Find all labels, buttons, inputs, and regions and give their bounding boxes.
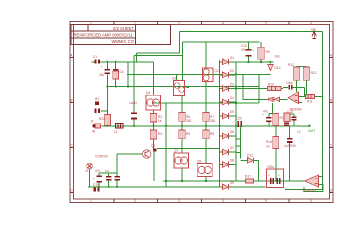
svg-text:R10: R10 [268, 83, 274, 87]
wire x243 to inv input [242, 74, 244, 100]
capacitor C18 [106, 176, 112, 181]
wire R12 top lead [297, 65, 307, 67]
svg-text:R11: R11 [307, 100, 313, 104]
svg-text:D13: D13 [247, 154, 253, 158]
svg-text:D10: D10 [275, 66, 281, 70]
capacitor C5 [129, 101, 137, 119]
pair box M4 [146, 95, 161, 110]
svg-text:2: 2 [134, 199, 136, 203]
wire C19b leads [116, 173, 118, 176]
junction dots [133, 125, 135, 127]
wire R9 top feed [260, 42, 262, 47]
wire staircase V1b [136, 53, 138, 62]
svg-text:R13: R13 [311, 71, 317, 75]
resistor R20 [99, 115, 110, 126]
diode D12 [275, 97, 280, 101]
supply symbol V+ [311, 28, 317, 39]
wire vertical x128 [127, 62, 129, 87]
diode D1 [220, 56, 249, 65]
svg-text:C20: C20 [236, 117, 242, 121]
wire staircase H1 [137, 52, 180, 54]
wire rail2 vertical [182, 42, 184, 81]
svg-text:B: B [70, 99, 72, 103]
svg-text:NJM4565: NJM4565 [303, 189, 317, 193]
transistor Q2 [203, 69, 209, 75]
svg-text:1u/50: 1u/50 [129, 101, 137, 105]
wire x153.5 bus to R4 [153, 126, 155, 130]
wire inv input line [243, 98, 288, 100]
svg-text:30u: 30u [99, 73, 105, 77]
wire cap C5 leads [133, 119, 135, 126]
transistor Q1a [174, 83, 180, 89]
wire cluster top h [269, 113, 276, 115]
cap box B1 [267, 169, 284, 188]
frame tick right 4 [330, 192, 334, 194]
connector J2 [85, 163, 92, 173]
wire horizontal y111.2 [101, 110, 108, 112]
svg-text:Q2: Q2 [215, 69, 219, 73]
frame tick bottom 1 [113, 199, 115, 203]
wire feedback cap drop [304, 87, 306, 96]
svg-text:R20: R20 [99, 117, 105, 121]
svg-text:+: + [101, 65, 103, 69]
wire x182 R5 to bus [181, 121, 183, 126]
capacitor C4 [113, 69, 124, 79]
wire C10 top lead [248, 42, 250, 49]
wire x153.5 box to R3 [153, 110, 155, 114]
wire Q5 base line [117, 153, 143, 155]
svg-text:4u7/63V: 4u7/63V [284, 144, 297, 148]
svg-text:R9: R9 [266, 50, 270, 54]
title block outline [71, 25, 171, 45]
wire R12 bottom lead [296, 80, 298, 92]
wire x154.2 down to rail [153, 150, 155, 181]
resistor R9 [258, 47, 270, 59]
svg-text:4: 4 [222, 199, 224, 203]
capacitor C3 polarized [99, 65, 110, 77]
wire U1 output [299, 96, 306, 98]
svg-text:+56: +56 [311, 28, 317, 32]
resistor R3 [150, 114, 162, 123]
wire x182 bus to R6 [181, 126, 183, 130]
wire bottom caps top h [99, 172, 117, 174]
capacitor C13 [287, 110, 296, 121]
wire cap C3 bottom lead and drop [106, 74, 108, 115]
wire stub y139 [236, 138, 241, 140]
svg-text:D1: D1 [230, 56, 234, 60]
wire cap C4 top lead [115, 62, 117, 69]
wire U2 feedback loop [304, 184, 323, 191]
svg-text:47u: 47u [95, 169, 101, 173]
wire D10 leads [269, 62, 271, 64]
frame tick right 3 [330, 147, 334, 149]
frame tick top 5 [288, 22, 290, 25]
title block row divider 1 [71, 30, 136, 32]
diode D9 [223, 181, 235, 190]
svg-text:D7: D7 [230, 146, 234, 150]
transistor Q1b [179, 87, 185, 93]
svg-text:R8: R8 [210, 132, 214, 136]
wire stub y152.5 [236, 152, 241, 154]
wire chain rail extension [235, 126, 237, 153]
wire C13 leads [293, 114, 295, 116]
frame tick top 1 [113, 22, 115, 25]
capacitor C10 polarized [241, 44, 255, 57]
svg-text:Q7: Q7 [174, 149, 178, 153]
diode D7 [220, 146, 237, 155]
resistor R12 [288, 63, 300, 80]
wire x206 box M3 to rail [205, 177, 207, 182]
wire vertical x153.5 upper [153, 62, 155, 95]
wire x206 mirror to R7 [205, 82, 207, 113]
op-amp U1 [288, 92, 302, 112]
diode D6 [220, 130, 237, 139]
wire staircase V1 [179, 32, 181, 54]
resistor R10 horizontal [268, 83, 282, 91]
title block row divider 2 [71, 37, 136, 39]
wire R20 bottom lead [106, 124, 108, 127]
wire vertical x166 long [165, 103, 167, 187]
op-amp U2 pointing left [303, 175, 319, 193]
svg-text:C13: C13 [287, 110, 293, 114]
diode D4 [220, 96, 237, 105]
svg-text:1u: 1u [105, 169, 109, 173]
capacitor C17 polarized [93, 176, 102, 183]
transistor Q4b [152, 99, 159, 106]
wire LTP collector stub left [176, 74, 178, 80]
svg-text:D5: D5 [230, 110, 234, 114]
wire cluster2 top h [287, 113, 294, 115]
wire rail y74.3 [127, 73, 271, 75]
svg-text:C1: C1 [93, 55, 97, 59]
svg-text:L2: L2 [297, 130, 301, 134]
capacitor C19 polarized on rail [93, 183, 100, 191]
diode D0 block [95, 102, 99, 106]
wire x240.5 down [240, 127, 242, 158]
svg-text:R6: R6 [186, 132, 190, 136]
wire x182 LTP to R5 [181, 96, 183, 113]
wire V+ top rail [180, 31, 323, 33]
wire feedback line y148.5 [157, 148, 220, 150]
svg-text:330: 330 [186, 119, 192, 123]
svg-text:5: 5 [265, 199, 267, 203]
wire right loop vertical [322, 32, 324, 190]
svg-text:Q1: Q1 [172, 77, 176, 81]
wire C12 leads [268, 114, 270, 118]
pair box M2 [174, 153, 189, 168]
svg-text:+: + [93, 177, 95, 181]
resistor R17 horizontal [245, 175, 254, 184]
svg-text:1k: 1k [158, 119, 162, 123]
wire jack2 down [89, 169, 91, 187]
diode D8 [220, 159, 237, 168]
wire R9 to y62 [260, 59, 262, 62]
wire diode chain left rail [219, 60, 221, 187]
diode D5 [220, 110, 237, 119]
wire LTP feed [185, 86, 189, 88]
resistor R16 zobel [266, 137, 279, 149]
wire x182 R6 to box M2 [181, 139, 183, 153]
svg-text:3: 3 [178, 199, 180, 203]
wire rail y181 [163, 180, 305, 182]
svg-text:R17: R17 [245, 175, 251, 179]
wire x206 R8 to box M3 [205, 139, 207, 164]
diode D11 [268, 97, 273, 101]
wire rail y62 [236, 61, 273, 63]
wire main bus y125.8 [102, 125, 311, 127]
wire staircase V2b [133, 56, 135, 113]
capacitor C12 polarized [262, 113, 272, 122]
capacitor Cf feedback [286, 81, 293, 90]
wire staircase H2 [134, 55, 183, 57]
svg-text:+: + [253, 49, 255, 53]
wire rail y103 [152, 102, 259, 104]
svg-text:+: + [262, 113, 264, 117]
capacitor C20 on bus [236, 117, 242, 128]
resistor R13 [303, 67, 316, 80]
wire zobel R16 leads [275, 126, 277, 137]
capacitor C16 polarized series [277, 174, 281, 185]
frame tick bottom 2 [157, 199, 159, 203]
svg-text:WMMIC CO: WMMIC CO [111, 39, 134, 44]
frame tick right 1 [330, 57, 334, 59]
svg-text:L1: L1 [114, 130, 118, 134]
capacitor C15 polarized series [268, 174, 274, 185]
svg-text:D4: D4 [230, 96, 234, 100]
wire rail2 top [183, 41, 260, 43]
svg-text:C4: C4 [120, 70, 124, 74]
wire x182 box M2 to rail [181, 168, 183, 181]
frame tick top 2 [157, 22, 159, 25]
svg-text:10k: 10k [275, 55, 281, 59]
svg-text:3: 3 [178, 21, 180, 25]
transistor Q9 [198, 166, 205, 173]
wire x272.5 down [272, 103, 274, 114]
svg-text:Q9: Q9 [197, 160, 201, 164]
svg-text:Q5: Q5 [151, 144, 155, 148]
transistor Q4a [147, 99, 154, 106]
svg-text:J1: J1 [90, 120, 94, 124]
inductor L2 coil [297, 130, 301, 134]
wire noninv input line [236, 88, 283, 90]
resistor R6 [179, 130, 191, 139]
wire x206 R7 to bus [205, 121, 207, 126]
wire node line y61.8 [100, 61, 154, 63]
frame tick left 3 [70, 147, 74, 149]
title block vertical divider [135, 25, 137, 45]
resistor R15 [284, 113, 290, 126]
wire bottom loop horizontal [285, 189, 323, 191]
connector J1 input [92, 124, 101, 134]
frame tick bottom 4 [244, 199, 246, 203]
svg-text:R4: R4 [158, 132, 162, 136]
transistor Q7 [175, 157, 182, 164]
wire stub y146 [236, 145, 241, 147]
frame tick top 4 [244, 22, 246, 25]
frame tick left 4 [70, 192, 74, 194]
resistor R4 [150, 130, 162, 139]
wire diode chain right rail [235, 62, 237, 181]
frame tick right 2 [330, 102, 334, 104]
wire zobel C14 leads [289, 126, 291, 138]
wire U2 input stub top [319, 176, 323, 178]
wire C17 leads [98, 173, 100, 176]
pair box LTP M0 [174, 81, 185, 96]
transistor Q3 [203, 75, 209, 81]
wire cap C3 top lead [106, 62, 108, 69]
diode D2 [220, 69, 237, 78]
label OUT arrow [309, 124, 312, 127]
wire diode D13 line [241, 159, 248, 161]
wire rail y87 [107, 86, 259, 88]
svg-text:47u: 47u [241, 48, 247, 52]
wire C10 bottom lead [248, 57, 250, 63]
wire C18 leads [108, 173, 110, 176]
frame tick left 1 [70, 57, 74, 59]
wire x206 bus to R8 [205, 126, 207, 130]
frame tick left 2 [70, 102, 74, 104]
transistor Q5 [143, 150, 151, 158]
svg-text:4: 4 [222, 21, 224, 25]
svg-text:330: 330 [210, 119, 216, 123]
svg-text:Q4: Q4 [146, 91, 150, 95]
svg-text:OUT: OUT [308, 129, 315, 133]
resistor R5 [179, 113, 191, 122]
frame inner border [74, 25, 330, 200]
capacitor C2 polarized horizontal [95, 109, 101, 113]
transistor Q10 [204, 166, 211, 173]
resistor R7 [203, 113, 215, 122]
transistor Q8 [180, 157, 187, 164]
title block cell divider row1 [87, 25, 89, 32]
wire x259 to noninv [258, 74, 260, 103]
resistor R14 [273, 114, 286, 126]
diode D10 vertical [268, 65, 281, 71]
svg-text:5: 5 [265, 21, 267, 25]
pair box M3 [197, 164, 212, 177]
svg-text:10: 10 [266, 145, 270, 149]
svg-text:47u: 47u [263, 110, 269, 114]
svg-text:R12: R12 [288, 63, 294, 67]
diode D13 [247, 154, 254, 164]
capacitor C1 horizontal top-left [92, 55, 101, 64]
svg-text:D2: D2 [230, 69, 234, 73]
svg-text:D8: D8 [230, 159, 234, 163]
wire x153.5 R4 to Q5 [153, 139, 155, 150]
svg-text:+: + [278, 174, 280, 178]
wire x206 mirror top feed [205, 42, 207, 68]
frame tick bottom 5 [288, 199, 290, 203]
svg-text:2/2 SHEET: 2/2 SHEET [113, 26, 134, 31]
diode D3 [220, 83, 237, 92]
svg-text:B: B [330, 99, 332, 103]
svg-text:D3: D3 [230, 83, 234, 87]
resistor R11 horizontal [306, 95, 315, 104]
svg-text:D6: D6 [230, 130, 234, 134]
svg-text:6: 6 [310, 21, 312, 25]
capacitor C19b [114, 176, 120, 181]
svg-text:6: 6 [310, 199, 312, 203]
capacitor C14 zobel [284, 138, 297, 148]
svg-text:100u: 100u [267, 165, 274, 169]
svg-text:J2: J2 [85, 169, 89, 173]
resistor R8 [203, 130, 215, 139]
wire U1 lower input stub [299, 102, 303, 104]
wire x258.5 down [258, 160, 260, 181]
pair box mirror M1 [203, 68, 214, 82]
svg-text:COM=0V: COM=0V [95, 155, 109, 159]
wire cap C4 bottom lead [115, 79, 117, 87]
svg-text:D9: D9 [230, 181, 234, 185]
svg-text:+: + [268, 174, 270, 178]
wire rail y186.8 [88, 186, 266, 188]
svg-text:R2: R2 [95, 97, 99, 101]
svg-text:1: 1 [90, 199, 92, 203]
wire feedback cap line [283, 86, 288, 88]
inductor L1 [114, 123, 123, 134]
svg-text:REINFORCED AMP 0000/11/11: REINFORCED AMP 0000/11/11 [74, 33, 134, 38]
frame outer border [70, 22, 333, 203]
frame tick bottom 3 [201, 199, 203, 203]
frame tick top 3 [201, 22, 203, 25]
svg-text:100p: 100p [286, 81, 293, 85]
wire x117 up [116, 154, 118, 173]
wire R13 bottom lead [306, 80, 308, 94]
svg-text:R16: R16 [266, 140, 272, 144]
wire x153.5 R3 to bus [153, 122, 155, 126]
